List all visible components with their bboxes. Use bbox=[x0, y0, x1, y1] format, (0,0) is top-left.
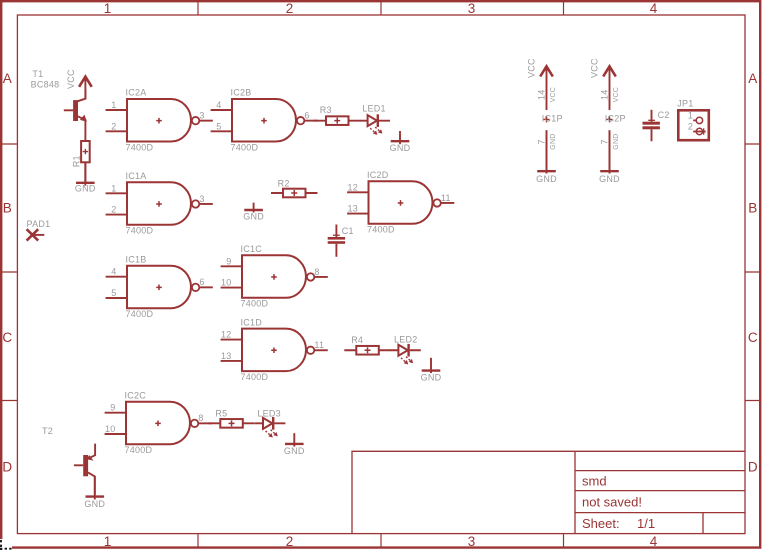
IC1A pin 3 (output) bbox=[200, 203, 213, 205]
ground pin wire bbox=[84, 162, 86, 185]
IC1D pin 13 (input) bbox=[221, 360, 242, 362]
svg-text:14: 14 bbox=[537, 89, 547, 100]
ground symbol bbox=[391, 140, 410, 142]
svg-text:7: 7 bbox=[600, 139, 610, 144]
connector JP1 outline bbox=[678, 110, 709, 140]
LED2 light emission arrows bbox=[401, 357, 413, 365]
resistor R2 bbox=[283, 189, 306, 198]
svg-text:IC2B: IC2B bbox=[231, 88, 252, 98]
R3 leads bbox=[314, 120, 361, 122]
ground symbol bbox=[86, 495, 105, 497]
svg-text:T1: T1 bbox=[32, 69, 43, 79]
R4 leads bbox=[344, 349, 391, 351]
svg-text:7400D: 7400D bbox=[231, 142, 259, 152]
IC2A pin 1 (input) bbox=[106, 109, 127, 111]
svg-text:3: 3 bbox=[468, 534, 476, 549]
IC1P origin cross bbox=[544, 116, 550, 122]
svg-text:3: 3 bbox=[199, 194, 204, 204]
svg-text:VCC: VCC bbox=[613, 87, 620, 102]
svg-text:7400D: 7400D bbox=[126, 309, 154, 319]
R5 leads bbox=[208, 422, 255, 424]
R2 leads bbox=[271, 192, 318, 194]
IC2B pin 6 (output) bbox=[305, 120, 318, 122]
svg-text:GND: GND bbox=[421, 373, 442, 383]
ground pin wire bbox=[430, 358, 432, 373]
svg-text:3: 3 bbox=[468, 1, 476, 16]
svg-text:C: C bbox=[2, 330, 12, 345]
IC2D output bubble bbox=[433, 199, 440, 206]
svg-text:GND: GND bbox=[284, 446, 305, 456]
svg-text:JP1: JP1 bbox=[677, 98, 693, 108]
ground symbol bbox=[422, 369, 441, 371]
LED LED3 bbox=[263, 418, 272, 429]
IC1B origin cross bbox=[156, 285, 162, 291]
svg-text:4: 4 bbox=[111, 267, 116, 277]
ground pin wire bbox=[253, 203, 255, 213]
title block outline bbox=[352, 451, 745, 533]
svg-text:IC1A: IC1A bbox=[126, 171, 147, 181]
svg-text:B: B bbox=[748, 201, 757, 216]
T1 emitter wire with arrow bbox=[78, 116, 86, 141]
IC1A output bubble bbox=[192, 200, 199, 207]
capacitor C2 (polarized) bbox=[643, 122, 660, 125]
R2 origin cross bbox=[291, 190, 297, 196]
svg-text:GND: GND bbox=[536, 174, 557, 184]
ground pin wire bbox=[94, 476, 96, 499]
ground symbol bbox=[600, 170, 619, 172]
svg-text:7400D: 7400D bbox=[125, 445, 153, 455]
svg-text:Sheet:: Sheet: bbox=[582, 516, 620, 531]
VCC pin wire bbox=[546, 68, 548, 110]
IC2B origin cross bbox=[261, 118, 267, 124]
svg-text:12: 12 bbox=[347, 182, 358, 192]
page edge dashed (bottom-left) bbox=[0, 540, 12, 550]
svg-text:C2: C2 bbox=[658, 110, 670, 120]
R5 origin cross bbox=[229, 420, 235, 426]
IC1P pin 7 wire bbox=[546, 130, 548, 173]
svg-text:1: 1 bbox=[111, 100, 116, 110]
IC2C pin 10 (input) bbox=[105, 433, 126, 435]
svg-text:1: 1 bbox=[104, 534, 112, 549]
svg-text:10: 10 bbox=[221, 278, 232, 288]
ground pin wire bbox=[546, 130, 548, 173]
LED2 leads bbox=[390, 349, 420, 351]
C1 plus polarity mark bbox=[333, 234, 340, 236]
svg-text:1/1: 1/1 bbox=[637, 516, 655, 531]
IC2B pin 4 (input) bbox=[211, 109, 232, 111]
svg-text:R1: R1 bbox=[71, 155, 81, 167]
svg-text:C1: C1 bbox=[342, 226, 354, 236]
IC1C pin 10 (input) bbox=[221, 287, 242, 289]
LED3 leads bbox=[255, 422, 285, 424]
IC2D pin 12 (input) bbox=[347, 191, 368, 193]
svg-text:R3: R3 bbox=[320, 105, 332, 115]
LED2 cathode bar bbox=[407, 344, 409, 357]
svg-text:6: 6 bbox=[199, 277, 204, 287]
svg-text:LED2: LED2 bbox=[394, 335, 418, 345]
C2 plus polarity mark bbox=[648, 119, 655, 121]
JP1 pin 1 bbox=[696, 117, 702, 123]
svg-text:smd: smd bbox=[582, 473, 607, 488]
svg-text:GND: GND bbox=[550, 134, 557, 150]
svg-text:11: 11 bbox=[314, 340, 324, 350]
IC2C pin 8 (output) bbox=[199, 422, 212, 424]
LED1 leads bbox=[360, 120, 390, 122]
IC2A origin cross bbox=[156, 118, 162, 124]
svg-text:13: 13 bbox=[347, 204, 358, 214]
svg-text:PAD1: PAD1 bbox=[27, 219, 51, 229]
svg-text:VCC: VCC bbox=[550, 87, 557, 102]
T2 emitter wire with arrow bbox=[88, 444, 95, 459]
C1 pin wires bbox=[335, 225, 337, 257]
svg-text:D: D bbox=[748, 459, 758, 474]
NAND gate IC1C (7400D) bbox=[242, 255, 306, 297]
ground pin wire bbox=[399, 131, 401, 144]
svg-text:1: 1 bbox=[688, 111, 693, 121]
NAND gate IC1B (7400D) bbox=[127, 266, 191, 309]
ground symbol bbox=[537, 170, 556, 172]
NAND gate IC2A (7400D) bbox=[127, 99, 191, 142]
svg-text:IC1B: IC1B bbox=[126, 254, 147, 264]
NAND gate IC1D (7400D) bbox=[242, 329, 306, 372]
svg-text:BC848: BC848 bbox=[31, 79, 60, 89]
svg-text:2: 2 bbox=[286, 534, 294, 549]
NAND gate IC2B (7400D) bbox=[232, 99, 296, 142]
svg-text:2: 2 bbox=[688, 122, 693, 132]
svg-text:IC2P: IC2P bbox=[605, 114, 626, 124]
VCC supply arrow bbox=[540, 66, 553, 76]
VCC supply arrow bbox=[79, 77, 92, 87]
IC1C output bubble bbox=[307, 273, 314, 280]
LED1 light emission arrows bbox=[370, 127, 382, 135]
svg-text:4: 4 bbox=[650, 1, 658, 16]
svg-text:11: 11 bbox=[441, 193, 451, 203]
R4 origin cross bbox=[365, 347, 371, 353]
svg-text:13: 13 bbox=[221, 351, 232, 361]
NAND gate IC2C (7400D) bbox=[126, 402, 190, 445]
resistor R3 bbox=[326, 116, 349, 125]
IC1B pin 4 (input) bbox=[106, 276, 127, 278]
IC1D output bubble bbox=[307, 347, 314, 354]
LED3 light emission arrows bbox=[266, 430, 278, 438]
svg-text:1: 1 bbox=[111, 183, 116, 193]
transistor T1 (BC848 NPN) base bar bbox=[73, 100, 78, 121]
svg-text:9: 9 bbox=[110, 403, 115, 413]
resistor R4 bbox=[356, 346, 379, 355]
svg-text:7: 7 bbox=[537, 139, 547, 144]
svg-text:R2: R2 bbox=[278, 179, 290, 189]
svg-text:B: B bbox=[3, 201, 12, 216]
svg-text:IC2D: IC2D bbox=[367, 170, 389, 180]
R3 origin cross bbox=[334, 118, 340, 124]
svg-text:C: C bbox=[748, 330, 758, 345]
svg-text:12: 12 bbox=[221, 330, 232, 340]
svg-text:GND: GND bbox=[599, 174, 620, 184]
IC1D pin 11 (output) bbox=[315, 349, 328, 351]
IC2A pin 3 (output) bbox=[200, 120, 213, 122]
IC2C output bubble bbox=[191, 420, 198, 427]
svg-text:IC1C: IC1C bbox=[241, 244, 263, 254]
ground symbol bbox=[285, 443, 304, 445]
VCC supply arrow bbox=[603, 66, 616, 76]
svg-text:9: 9 bbox=[226, 256, 231, 266]
svg-text:VCC: VCC bbox=[66, 69, 76, 89]
IC1B pin 6 (output) bbox=[200, 286, 213, 288]
svg-text:GND: GND bbox=[75, 183, 96, 193]
svg-text:GND: GND bbox=[613, 134, 620, 150]
ground pin wire bbox=[609, 130, 611, 173]
svg-text:GND: GND bbox=[390, 143, 411, 153]
svg-text:GND: GND bbox=[84, 499, 105, 509]
VCC pin wire bbox=[84, 78, 86, 99]
svg-text:2: 2 bbox=[286, 1, 294, 16]
svg-text:8: 8 bbox=[314, 267, 319, 277]
title block row lines bbox=[575, 471, 745, 534]
svg-text:LED3: LED3 bbox=[257, 408, 281, 418]
T2 collector wire to GND bbox=[88, 472, 95, 494]
IC1D pin 12 (input) bbox=[221, 339, 242, 341]
IC2D pin 13 (input) bbox=[347, 213, 368, 215]
svg-text:T2: T2 bbox=[42, 426, 53, 436]
svg-text:GND: GND bbox=[243, 211, 264, 221]
IC1B output bubble bbox=[192, 284, 199, 291]
R1 origin cross bbox=[83, 149, 88, 154]
svg-text:A: A bbox=[3, 71, 12, 86]
svg-text:8: 8 bbox=[198, 413, 203, 423]
svg-text:2: 2 bbox=[111, 121, 116, 131]
IC2D pin 11 (output) bbox=[441, 202, 454, 204]
LED3 cathode bar bbox=[272, 417, 274, 430]
wire R1 to GND bbox=[84, 162, 86, 183]
T2 base pin wire bbox=[74, 464, 83, 466]
svg-text:1: 1 bbox=[104, 1, 112, 16]
IC2C origin cross bbox=[155, 421, 161, 427]
frame row ticks bbox=[1, 144, 760, 401]
JP1 pin 2 bbox=[696, 128, 702, 134]
NAND gate IC2D (7400D) bbox=[369, 181, 433, 224]
svg-text:VCC: VCC bbox=[526, 58, 536, 78]
IC2P origin cross bbox=[607, 116, 613, 122]
T1 base pin wire bbox=[64, 109, 73, 111]
VCC pin wire bbox=[609, 68, 611, 110]
svg-text:4: 4 bbox=[216, 100, 221, 110]
svg-text:5: 5 bbox=[216, 121, 221, 131]
IC2C pin 9 (input) bbox=[105, 412, 126, 414]
svg-text:D: D bbox=[2, 459, 12, 474]
svg-text:IC1D: IC1D bbox=[241, 317, 263, 327]
IC1C pin 9 (input) bbox=[221, 265, 242, 267]
svg-text:A: A bbox=[748, 71, 757, 86]
svg-text:7400D: 7400D bbox=[241, 299, 269, 309]
frame column ticks bbox=[198, 1, 564, 547]
IC2P pin 7 wire bbox=[609, 130, 611, 173]
transistor T2 (PNP) base bar bbox=[83, 455, 88, 476]
LED LED2 bbox=[398, 345, 407, 356]
svg-text:not saved!: not saved! bbox=[582, 495, 642, 510]
PAD1 pin wire bbox=[32, 234, 44, 236]
ground symbol bbox=[244, 209, 263, 211]
IC1A pin 2 (input) bbox=[106, 214, 127, 216]
LED LED1 bbox=[368, 115, 377, 126]
IC2D origin cross bbox=[398, 200, 404, 206]
capacitor C1 (polarized) bbox=[328, 237, 345, 240]
svg-text:IC2A: IC2A bbox=[126, 88, 147, 98]
svg-text:VCC: VCC bbox=[589, 58, 599, 78]
svg-text:R4: R4 bbox=[351, 335, 363, 345]
svg-text:7400D: 7400D bbox=[241, 372, 269, 382]
IC2B output bubble bbox=[297, 117, 304, 124]
ground pin wire bbox=[293, 433, 295, 446]
svg-text:4: 4 bbox=[650, 534, 658, 549]
IC1A pin 1 (input) bbox=[106, 192, 127, 194]
NAND gate IC1A (7400D) bbox=[127, 182, 191, 225]
svg-text:LED1: LED1 bbox=[362, 104, 386, 114]
IC1C origin cross bbox=[271, 274, 277, 280]
svg-text:14: 14 bbox=[600, 89, 610, 100]
T1 collector wire to VCC bbox=[78, 90, 86, 101]
IC2A pin 2 (input) bbox=[106, 130, 127, 132]
IC1C pin 8 (output) bbox=[315, 276, 328, 278]
IC1B pin 5 (input) bbox=[106, 297, 127, 299]
svg-text:IC2C: IC2C bbox=[125, 390, 147, 400]
svg-text:7400D: 7400D bbox=[367, 225, 395, 235]
IC1D origin cross bbox=[271, 347, 277, 353]
svg-text:7400D: 7400D bbox=[126, 142, 154, 152]
svg-text:3: 3 bbox=[199, 110, 204, 120]
svg-text:6: 6 bbox=[304, 110, 309, 120]
IC2A output bubble bbox=[192, 117, 199, 124]
svg-text:5: 5 bbox=[111, 288, 116, 298]
ground symbol bbox=[76, 182, 95, 184]
resistor R5 bbox=[220, 419, 243, 428]
LED1 cathode bar bbox=[377, 114, 379, 127]
svg-text:10: 10 bbox=[105, 424, 116, 434]
C2 pin wires bbox=[651, 110, 653, 142]
svg-text:7400D: 7400D bbox=[126, 226, 154, 236]
svg-text:R5: R5 bbox=[215, 408, 227, 418]
svg-text:IC1P: IC1P bbox=[542, 114, 563, 124]
IC1A origin cross bbox=[156, 201, 162, 207]
IC2B pin 5 (input) bbox=[211, 130, 232, 132]
resistor R1 bbox=[81, 141, 90, 162]
svg-text:2: 2 bbox=[111, 205, 116, 215]
PAD1 pad cross bbox=[27, 229, 39, 240]
